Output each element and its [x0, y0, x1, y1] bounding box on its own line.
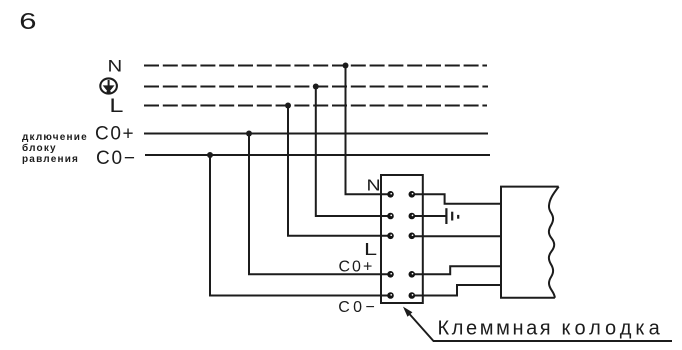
svg-text:равления: равления [22, 154, 79, 165]
svg-text:C0+: C0+ [95, 124, 135, 145]
svg-text:колодка: колодка [562, 318, 664, 340]
svg-text:L: L [364, 239, 377, 259]
svg-text:блоку: блоку [22, 142, 57, 154]
svg-text:C0−: C0− [338, 299, 378, 316]
svg-text:C0+: C0+ [339, 259, 375, 276]
svg-text:6: 6 [19, 8, 36, 34]
svg-text:N: N [108, 56, 123, 75]
svg-text:N: N [367, 176, 381, 194]
svg-text:C0−: C0− [96, 148, 137, 169]
svg-text:дключение: дключение [22, 132, 88, 143]
svg-text:Клеммная: Клеммная [438, 318, 554, 340]
svg-text:L: L [109, 95, 123, 116]
